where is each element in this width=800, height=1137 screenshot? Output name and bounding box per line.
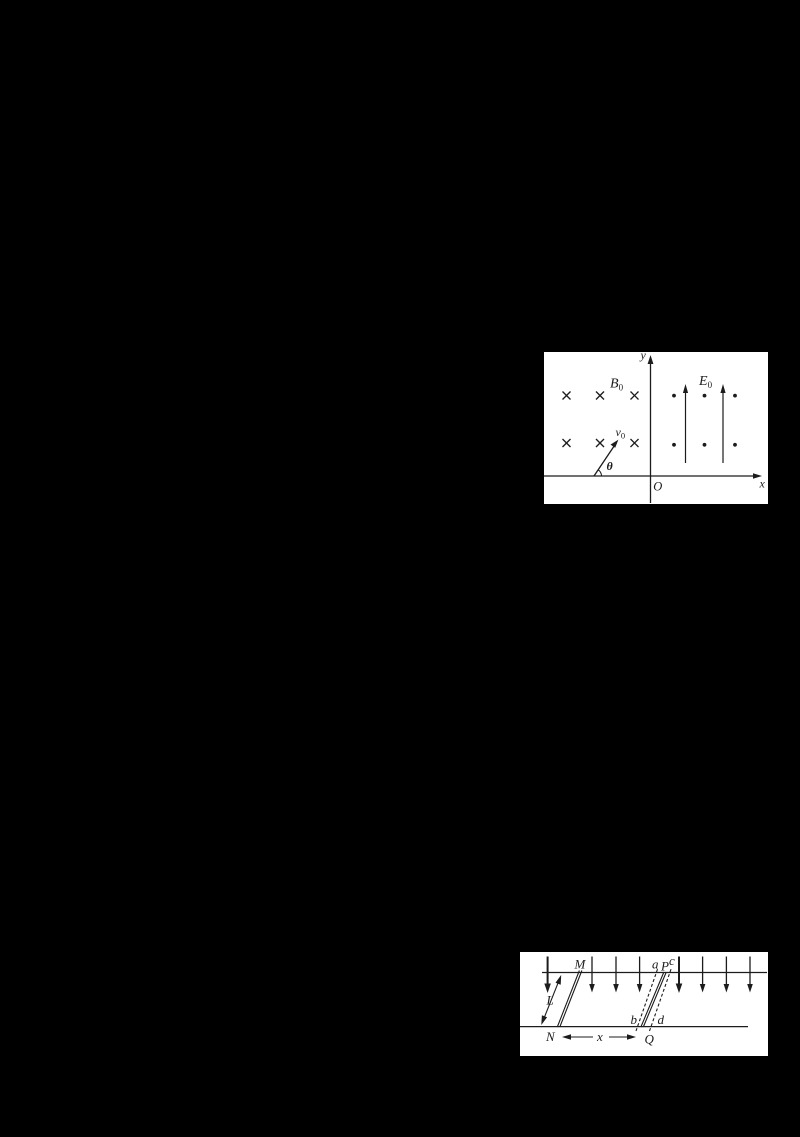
- field arrow 1 (bold): [547, 957, 549, 988]
- field arrow 3: [615, 957, 617, 988]
- field arrow 8: [749, 957, 751, 988]
- field arrow 4: [639, 957, 641, 988]
- field arrow 7: [725, 957, 727, 988]
- figure 2: rod MN sliding in field region: [520, 952, 768, 1056]
- y-axis: [650, 359, 652, 503]
- svg-text:a: a: [652, 957, 659, 972]
- x-axis: [544, 475, 758, 477]
- svg-text:B0: B0: [610, 377, 624, 393]
- cross row2 col3: [631, 439, 639, 447]
- E field arrow 1: [685, 388, 687, 463]
- y-axis arrowhead: [648, 355, 654, 364]
- cross row1 col1: [563, 392, 639, 448]
- svg-text:b: b: [631, 1012, 638, 1027]
- svg-text:O: O: [653, 479, 662, 493]
- velocity vector v0: [594, 443, 617, 477]
- svg-text:x: x: [759, 477, 766, 491]
- svg-text:x: x: [596, 1029, 603, 1044]
- angle arc theta: [598, 470, 601, 476]
- x-axis arrowhead: [753, 473, 762, 479]
- top boundary line: [542, 972, 767, 974]
- dashed line left of rod: [636, 969, 658, 1031]
- dot row1 col1: [672, 394, 676, 398]
- svg-text:N: N: [545, 1029, 556, 1044]
- field arrow 5 (bold): [678, 957, 680, 988]
- dot row1 col3: [733, 394, 737, 398]
- svg-text:M: M: [574, 957, 587, 972]
- svg-text:c: c: [669, 953, 675, 968]
- svg-text:d: d: [658, 1012, 665, 1027]
- bottom boundary line: [520, 1026, 748, 1028]
- svg-text:v0: v0: [616, 425, 626, 441]
- cross row2 col1: [563, 439, 571, 447]
- length arrow L (double headed): [543, 980, 559, 1020]
- svg-text:Q: Q: [645, 1032, 655, 1047]
- svg-text:y: y: [640, 352, 647, 362]
- dots grid: [672, 394, 737, 447]
- field arrow 2: [591, 957, 593, 988]
- dot row2 col2: [703, 443, 707, 447]
- svg-text:θ: θ: [607, 459, 614, 473]
- distance arrow x (double headed): [565, 1036, 593, 1038]
- dot row2 col1: [672, 443, 676, 447]
- rod MN (double line): [557, 971, 579, 1028]
- svg-text:P: P: [660, 959, 669, 974]
- field arrow 6: [702, 957, 704, 988]
- cross row1 col3: [631, 392, 639, 400]
- svg-text:L: L: [546, 993, 554, 1008]
- dot row1 col2: [703, 394, 707, 398]
- dashed line right of rod: [650, 969, 672, 1031]
- cross row1 col2: [596, 392, 604, 400]
- dot row2 col3: [733, 443, 737, 447]
- cross row2 col2: [596, 439, 604, 447]
- svg-text:E0: E0: [698, 374, 713, 390]
- figure 1: charged particle in B and E field regions: [544, 352, 768, 504]
- E field arrow 2: [722, 388, 724, 463]
- rod PQ (double line): [641, 972, 664, 1027]
